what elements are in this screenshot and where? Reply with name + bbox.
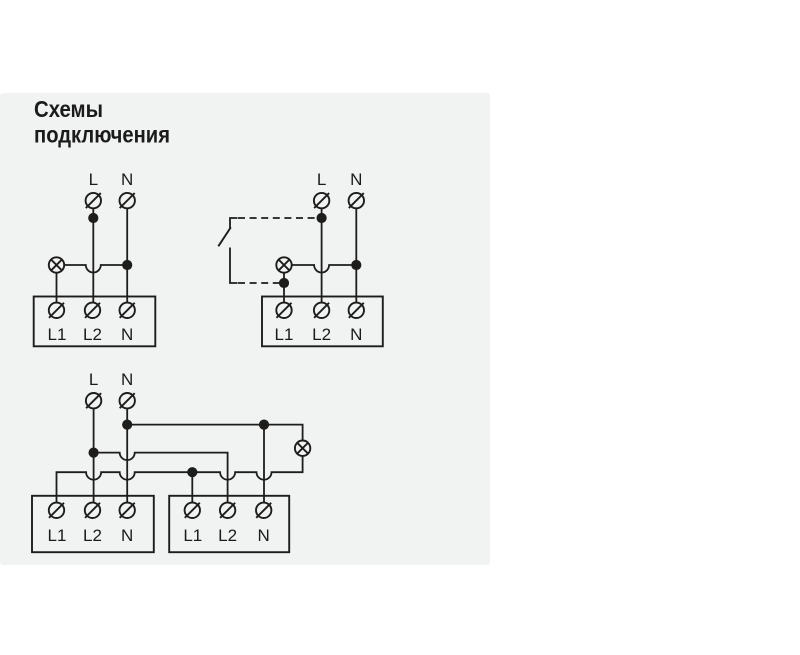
junction to box2 N xyxy=(259,420,269,430)
svg-text:L: L xyxy=(89,170,98,189)
terminal L2 box3b (screw) xyxy=(220,503,235,518)
svg-text:L1: L1 xyxy=(48,325,67,344)
junction on L xyxy=(89,448,99,458)
junction below lamp xyxy=(279,278,289,288)
terminal N (screw) xyxy=(120,393,135,408)
terminal L (screw) xyxy=(86,393,101,408)
wire L vertical xyxy=(321,208,323,302)
title: Схемы подключения xyxy=(34,96,170,148)
svg-text:L1: L1 xyxy=(48,526,67,545)
wire L vertical xyxy=(93,408,95,502)
svg-text:N: N xyxy=(121,526,133,545)
terminal L1 box3b (screw) xyxy=(185,503,200,518)
device box 2 xyxy=(262,297,383,347)
dashed wire from switch (bottom) xyxy=(238,282,279,284)
svg-text:L2: L2 xyxy=(83,325,102,344)
wire lamp return (bottom run with hops) xyxy=(57,456,303,503)
switch top contact corner xyxy=(230,218,238,229)
svg-text:L2: L2 xyxy=(218,526,237,545)
wire lamp to N (with hop over L) xyxy=(292,265,357,273)
terminal N box3a (screw) xyxy=(120,503,135,518)
junction below L xyxy=(317,213,327,223)
svg-text:L1: L1 xyxy=(275,325,294,344)
terminal L (screw) xyxy=(86,193,101,208)
svg-text:L1: L1 xyxy=(183,526,202,545)
junction on N wire xyxy=(122,260,132,270)
wire L to box2 L2 (middle run with hop over N) xyxy=(94,453,228,503)
wire junction to box2 N xyxy=(263,425,265,503)
terminal N2 (screw) xyxy=(120,303,135,318)
dashed wire to switch (top) xyxy=(238,217,316,219)
terminal L2 (screw) xyxy=(314,303,329,318)
terminal N (screw) xyxy=(349,193,364,208)
svg-text:N: N xyxy=(121,370,133,389)
junction below L xyxy=(88,213,98,223)
wire N vertical xyxy=(126,408,128,502)
terminal N box3b (screw) xyxy=(256,503,271,518)
device box 3a xyxy=(32,496,154,552)
wire N vertical xyxy=(126,208,128,302)
svg-text:N: N xyxy=(350,170,362,189)
svg-text:L: L xyxy=(317,170,326,189)
device box 3b xyxy=(169,496,289,552)
terminal N2 (screw) xyxy=(349,303,364,318)
lamp E2 xyxy=(276,257,291,272)
wire N vertical xyxy=(355,208,357,302)
panel background xyxy=(0,93,490,565)
wire lamp to N (with hop over L) xyxy=(64,265,127,273)
switch bottom contact wire xyxy=(230,248,238,284)
svg-text:Схемы: Схемы xyxy=(34,96,103,122)
terminal L2 (screw) xyxy=(85,303,100,318)
terminal N (screw) xyxy=(120,193,135,208)
wire junction to box2 L1 xyxy=(191,472,193,502)
svg-text:L2: L2 xyxy=(312,325,331,344)
junction to box2 L1 xyxy=(187,467,197,477)
junction on N wire xyxy=(351,260,361,270)
terminal L1 (screw) xyxy=(276,303,291,318)
device box 1 xyxy=(34,297,156,347)
terminal L1 (screw) xyxy=(49,303,64,318)
wire lamp to L1 xyxy=(56,273,58,303)
wire N to lamp (top run) xyxy=(127,425,302,441)
lamp E1 xyxy=(49,257,64,272)
svg-text:подключения: подключения xyxy=(34,122,170,148)
svg-text:N: N xyxy=(350,325,362,344)
svg-text:N: N xyxy=(121,325,133,344)
wire lamp to L1 xyxy=(283,273,285,303)
svg-text:L2: L2 xyxy=(83,526,102,545)
switch S1 blade xyxy=(218,227,231,246)
svg-text:N: N xyxy=(121,170,133,189)
terminal L2 box3a (screw) xyxy=(85,503,100,518)
terminal L (screw) xyxy=(314,193,329,208)
svg-text:N: N xyxy=(258,526,270,545)
svg-text:L: L xyxy=(89,370,98,389)
terminal L1 box3a (screw) xyxy=(49,503,64,518)
junction on N xyxy=(122,420,132,430)
wire L vertical xyxy=(92,208,94,302)
lamp E3 xyxy=(295,441,310,456)
